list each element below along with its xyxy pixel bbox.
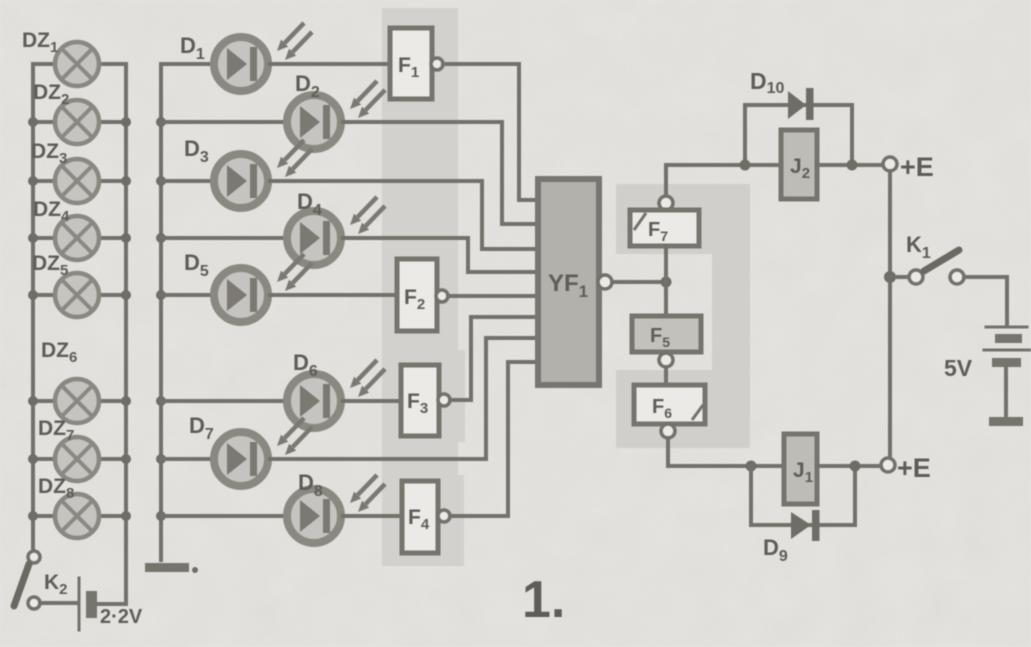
contact F6: [634, 385, 705, 424]
relay J2: [781, 130, 817, 199]
wire battery to right rail: [97, 602, 126, 606]
junction D rail row 5: [156, 290, 166, 300]
relay contact F7 terminal: [659, 196, 673, 210]
junction K1 node: [884, 271, 896, 283]
junction D10 left: [740, 160, 751, 171]
wire D8 to F4: [343, 514, 402, 518]
wire F7 to F5: [664, 246, 668, 316]
wire row4 rail to D4: [161, 236, 285, 240]
wire lamp row DZ2: [33, 120, 126, 124]
lamp DZ2: [55, 100, 99, 144]
lamp DZ3: [55, 159, 99, 203]
lamp DZ6: [55, 379, 99, 423]
junction left rail row 4: [28, 233, 38, 243]
junction D10 right: [847, 160, 858, 171]
shaded band behind F1-F4 column: [382, 8, 458, 566]
photodiode D5: [214, 254, 312, 322]
shaper F3: [401, 365, 450, 436]
junction D9 left: [746, 461, 757, 472]
battery 5V: [984, 327, 1031, 426]
svg-text:2·2V: 2·2V: [100, 606, 143, 628]
wire D5 to F2: [270, 293, 397, 297]
wire D column left rail: [159, 64, 163, 560]
junction D rail row 7: [156, 454, 166, 464]
wire +E rail: [888, 171, 892, 457]
terminal +E top: [883, 157, 897, 171]
diode D10: [745, 88, 852, 165]
wire J2 row to F7: [666, 165, 781, 196]
wire lamp row DZ3: [33, 179, 126, 183]
junction D9 right: [850, 461, 861, 472]
lamp DZ8: [55, 494, 99, 538]
junction right rail row 6: [121, 396, 131, 406]
junction left rail row 7: [28, 454, 38, 464]
wire F4 to YF1: [450, 362, 538, 516]
wire DZ right rail: [124, 64, 128, 604]
terminal +E bottom: [881, 458, 895, 472]
wire D3 to YF1: [270, 181, 538, 249]
photodiode D7: [214, 418, 312, 486]
junction left rail row 2: [28, 117, 38, 127]
wire F1 to YF1: [443, 64, 538, 200]
relay J1: [784, 434, 817, 504]
wire F2 to YF1: [448, 294, 538, 298]
shaper F2: [397, 259, 448, 331]
junction left rail row 3: [28, 176, 38, 186]
wire lamp row DZ7: [33, 457, 126, 461]
junction D rail row 2: [156, 117, 166, 127]
wire F3 to YF1: [450, 317, 538, 400]
shaded band right of F5: [712, 184, 750, 448]
junction right rail row 4: [121, 233, 131, 243]
junction YF1 output node: [661, 277, 672, 288]
photodiode D2: [287, 81, 385, 149]
junction D rail row 4: [156, 233, 166, 243]
junction D rail row 3: [156, 176, 166, 186]
wire row1 rail to D1: [161, 62, 212, 66]
wire D6 to F3: [343, 399, 401, 403]
shaper F1: [390, 28, 443, 99]
lamp DZ7: [55, 437, 99, 481]
wire D2 to YF1: [343, 122, 538, 224]
wire lamp row DZ6: [33, 399, 126, 403]
lamp DZ1: [55, 42, 99, 86]
photodiode D1: [214, 23, 312, 91]
wire DZ left rail: [31, 64, 35, 551]
diode D9: [751, 466, 855, 541]
junction left rail row 8: [28, 511, 38, 521]
wire row8 rail to D8: [161, 514, 285, 518]
junction D rail row 6: [156, 396, 166, 406]
relay contact F5 terminal: [659, 353, 673, 367]
svg-text:1.: 1.: [522, 571, 565, 629]
wire K2 to battery: [40, 601, 77, 605]
battery 2.2V negative plate: [86, 591, 97, 618]
shaded region behind F6: [616, 370, 750, 448]
junction D rail row 8: [156, 511, 166, 521]
wire YF1 output: [612, 280, 666, 284]
junction right rail row 5: [121, 290, 131, 300]
photodiode D4: [287, 197, 385, 265]
wire D1 to F1: [270, 62, 390, 66]
ground: [145, 563, 189, 572]
wire D7 to YF1: [270, 338, 538, 459]
wire F6 to J1: [668, 438, 784, 466]
photodiode D6: [287, 360, 385, 428]
wire row2 rail to D2: [161, 120, 285, 124]
shaper F4: [402, 481, 450, 553]
shaded region behind F7: [616, 184, 748, 254]
lamp DZ4: [55, 216, 99, 260]
svg-text:+E: +E: [900, 152, 934, 182]
wire J1 to +E bottom: [817, 464, 881, 468]
wire row5 rail to D5: [161, 293, 212, 297]
junction right rail row 3: [121, 176, 131, 186]
svg-text:+E: +E: [897, 453, 931, 483]
wire lamp row DZ1: [33, 62, 126, 66]
lamp DZ5: [55, 273, 99, 317]
wire lamp row DZ4: [33, 236, 126, 240]
junction left rail row 5: [28, 290, 38, 300]
svg-text:5V: 5V: [944, 355, 973, 381]
wire J2 to +E top: [817, 163, 883, 167]
wire F5 to F6: [664, 367, 668, 385]
junction right rail row 2: [121, 117, 131, 127]
wire D4 to YF1: [343, 238, 538, 272]
photodiode D3: [214, 140, 312, 208]
switch K1: [896, 250, 964, 284]
junction right rail row 7: [121, 454, 131, 464]
wire lamp row DZ5: [33, 293, 126, 297]
relay contact F6 terminal: [661, 424, 675, 438]
junction right rail row 8: [121, 511, 131, 521]
photodiode D8: [287, 475, 385, 543]
wire lamp row DZ8: [33, 514, 126, 518]
contact F5: [632, 316, 701, 352]
wire row7 rail to D7: [161, 457, 212, 461]
junction left rail row 6: [28, 396, 38, 406]
contact F7: [630, 210, 699, 246]
wire row6 rail to D6: [161, 399, 285, 403]
decoder YF1: [538, 179, 612, 385]
switch K2: [14, 551, 40, 609]
battery 2.2V positive plate: [78, 578, 81, 630]
wire K1 to battery: [964, 277, 1007, 324]
wire row3 rail to D3: [161, 179, 212, 183]
